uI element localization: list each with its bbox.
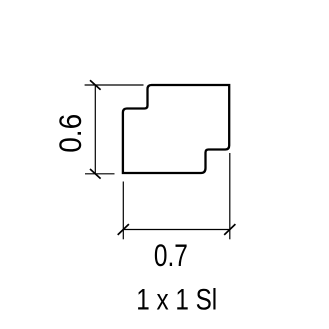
extension line top-left horizontal: [85, 84, 144, 86]
tick mark right of horizontal dimension: [224, 224, 235, 235]
svg-text:0.7: 0.7: [154, 237, 188, 273]
tick mark top of vertical dimension: [90, 80, 101, 90]
svg-text:1 x 1 Sl: 1 x 1 Sl: [136, 283, 217, 316]
tick mark left of horizontal dimension: [118, 224, 129, 235]
svg-text:0.6: 0.6: [52, 114, 88, 153]
tick mark bottom of vertical dimension: [90, 169, 101, 179]
vertical dimension line 0.6: [94, 85, 96, 174]
extension line right vertical: [229, 153, 231, 239]
horizontal dimension line 0.7: [123, 229, 230, 231]
extension line bottom-left horizontal: [85, 173, 115, 175]
profile outline (1x1 shiplap cross-section): [123, 85, 229, 173]
extension line left vertical: [122, 182, 124, 240]
